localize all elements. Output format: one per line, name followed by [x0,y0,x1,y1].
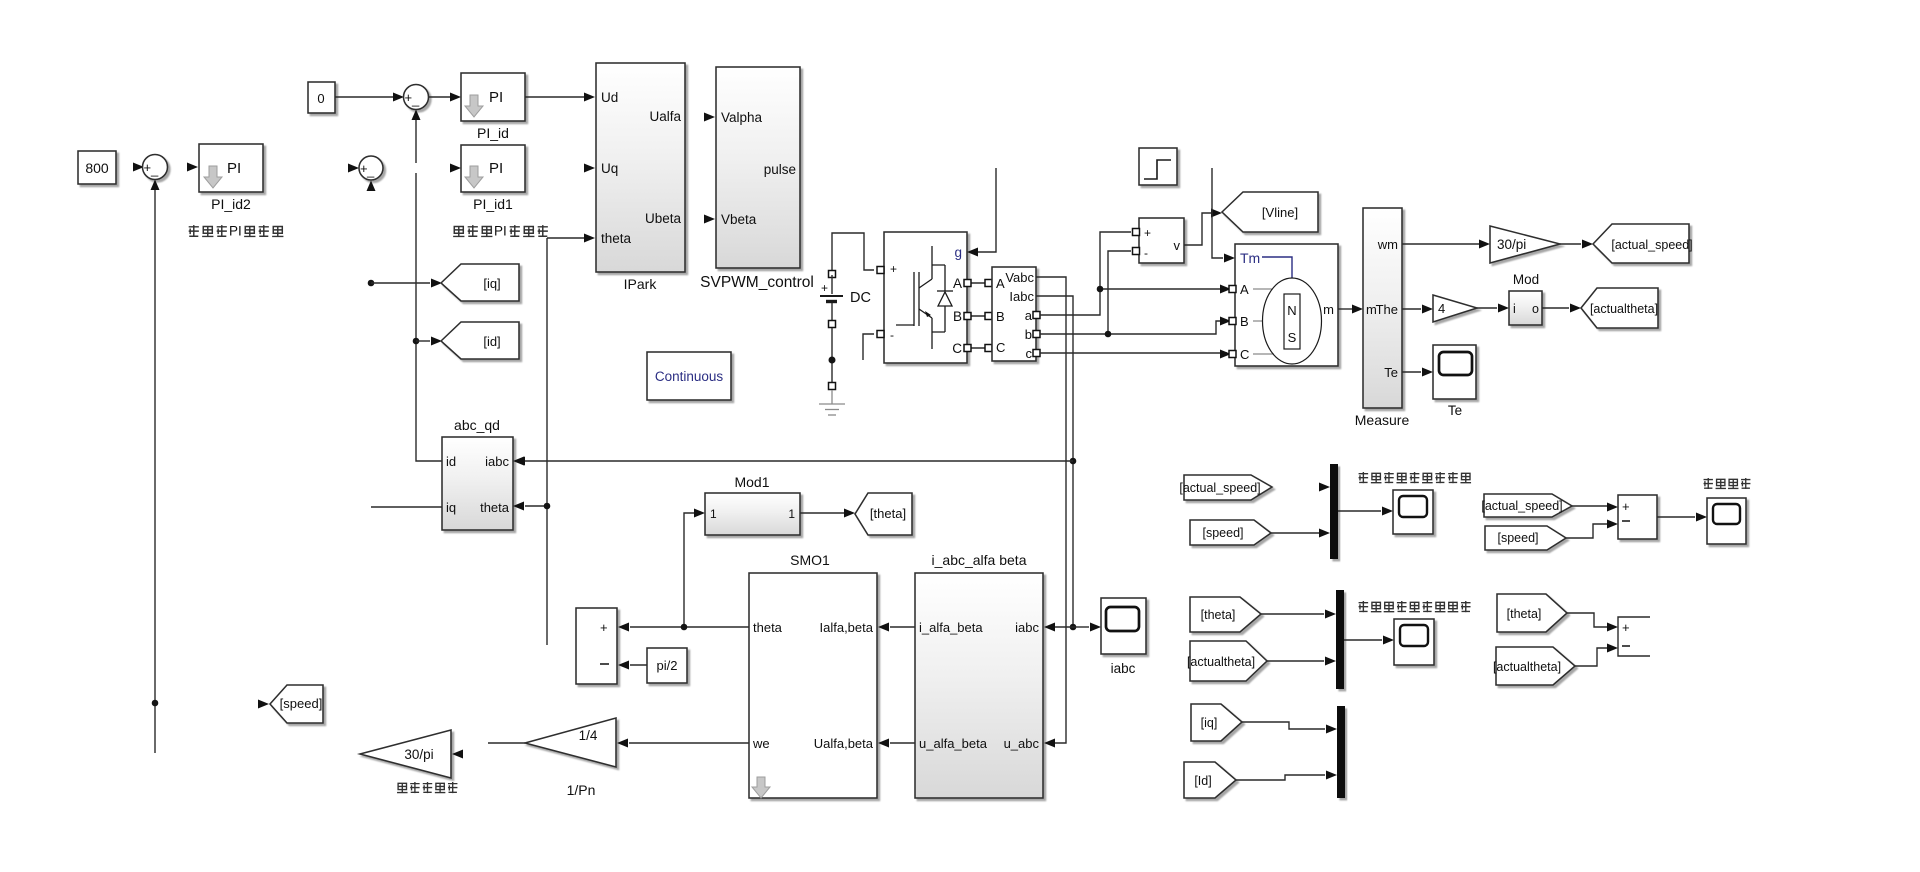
wire to [iq] tag [371,282,430,284]
wire Id to mux3 [1236,775,1325,780]
wire actualtheta to sumC [1575,648,1607,666]
svg-text:iabc: iabc [485,454,509,469]
svg-text:-: - [1144,246,1148,260]
port square DC top [829,271,836,278]
svg-text:Ialfa,beta: Ialfa,beta [820,620,874,635]
svg-text:iabc: iabc [1015,620,1039,635]
wire Vabc down to u_abc [1036,277,1066,743]
from tag [actualtheta] right [1493,647,1575,685]
gain 30/pi (rad to rpm, points left) [360,730,451,778]
wire arrow 800 to Sum3 [133,163,144,172]
block Mod1 [705,493,800,535]
wire Sum1 to PI_id [429,96,450,98]
svg-text:Iabc: Iabc [1009,289,1034,304]
node: id junction [413,338,420,345]
svg-text:u_alfa_beta: u_alfa_beta [919,736,988,751]
svg-text:4: 4 [1438,301,1445,316]
wire theta to mux2 [1261,613,1324,615]
svg-text:g: g [954,245,962,260]
wire 0 to Sum1 [335,96,394,98]
svg-text:Ualfa,beta: Ualfa,beta [814,736,874,751]
svg-text:PI_id2: PI_id2 [211,196,251,212]
svg-text:iq: iq [446,500,456,515]
wire pi/2 to sum [630,664,647,666]
svg-text:+: + [890,262,897,276]
svg-text:iabc: iabc [1111,661,1136,676]
node: iq junction [368,280,375,287]
wire speed to mux1 [1271,532,1319,534]
wire to [id] tag [416,340,430,342]
goto tag [id] [441,322,519,359]
sum block (theta compare) [576,608,617,684]
svg-text:1/4: 1/4 [579,728,598,743]
gain 30/pi (points right) [1490,226,1560,263]
goto tag [speed] [270,685,323,723]
svg-text:A: A [996,276,1005,291]
svg-text:Measure: Measure [1355,412,1410,428]
svg-text:id: id [446,454,456,469]
wire arrow iabc into abc_qd [513,457,524,466]
svg-text:+: + [1622,620,1630,635]
svg-text:wm: wm [1377,237,1398,252]
wire: SVPWM pulse to g [978,168,996,252]
svg-text:B: B [996,309,1005,324]
wire mux2 to scope [1344,639,1382,641]
wire Mod1 to [theta] [800,512,844,514]
node: DC minus junction [829,357,836,364]
svg-text:v: v [1174,238,1181,253]
wire arrow iabc into block [1044,623,1055,632]
wire SMO1 we out [629,742,749,744]
wire Iabc down [1036,296,1073,627]
scope Te [1433,345,1476,399]
svg-text:i_abc_alfa beta: i_abc_alfa beta [932,552,1027,568]
wire mux1 to scope [1338,510,1381,512]
from tag [speed] [1190,520,1271,545]
svg-text:N: N [1287,303,1296,318]
subsystem SVPWM_control [716,67,800,268]
from tag [iq] row3 [1191,704,1242,741]
svg-text:+: + [1144,226,1151,240]
svg-text:[actual_speed]: [actual_speed] [1611,238,1692,252]
svg-text:[speed]: [speed] [1497,531,1538,545]
sum speed error [1618,495,1657,539]
svg-text:Valpha: Valpha [721,110,763,125]
svg-text:30/pi: 30/pi [1497,237,1526,252]
wire Mod to [actualtheta] [1542,307,1569,309]
node theta junction [544,503,551,510]
block pi/2 [647,648,687,683]
svg-text:+: + [144,160,152,175]
wire iq out of abc_qd [371,506,442,508]
svg-text:PI_id: PI_id [477,125,509,141]
subsystem IPark [596,63,685,272]
wire theta into abc_qd [525,505,547,507]
svg-text:PI: PI [489,160,503,177]
wire SMO1 theta out [630,626,749,628]
svg-text:[actualtheta]: [actualtheta] [1590,302,1658,316]
wire v to [Vline] [1184,213,1211,245]
svg-text:Continuous: Continuous [655,369,724,384]
battery DC source [820,275,843,321]
svg-text:PI: PI [489,89,503,106]
svg-text:A: A [1240,282,1249,297]
wire arrow into 30/pi gain [452,750,463,759]
svg-text:PI: PI [494,224,507,239]
svg-text:A: A [953,276,962,291]
wire arrow Sum3 to PI_id2 [187,163,198,172]
annotation 弧度转转速 [397,782,457,793]
svg-text:The: The [1376,302,1398,317]
svg-text:[actual_speed]: [actual_speed] [1481,499,1562,513]
constant 0 [308,82,335,113]
wire actual_speed to sumB [1572,505,1607,507]
svg-text:o: o [1532,302,1539,316]
block Mod [1509,291,1542,325]
subsystem i_abc_alfa beta [915,573,1043,798]
node theta to Mod1 junction [681,624,688,631]
node Iabc to abc_qd [1070,458,1077,465]
svg-text:a: a [1025,308,1033,323]
svg-text:-: - [890,328,894,342]
svg-text:30/pi: 30/pi [404,747,433,762]
port square inverter + [877,267,884,274]
svg-text:we: we [752,736,770,751]
svg-text:[theta]: [theta] [1507,607,1542,621]
scope speed compare [1393,490,1433,534]
svg-text:PI: PI [229,224,242,239]
svg-text:theta: theta [601,231,632,246]
scope speed error [1707,498,1746,544]
port square DC bottom [829,383,836,390]
svg-text:S: S [1288,330,1297,345]
subsystem PI_id1 [461,145,525,192]
svg-text:[speed]: [speed] [280,696,323,711]
svg-text:[Id]: [Id] [1194,774,1211,788]
svg-text:[speed]: [speed] [1202,526,1243,540]
wires i_abc outputs to SMO1 [890,627,915,743]
svg-text:[iq]: [iq] [1201,716,1218,730]
motor port squares [1229,286,1236,293]
subsystem PI_id2 [199,144,263,192]
wire 30/pi to [actual_speed] [1560,243,1581,245]
svg-text:b: b [1025,327,1032,342]
sum Sum1 [404,85,429,110]
subsystem universal bridge (inverter) [884,232,967,363]
svg-text:pi/2: pi/2 [657,658,678,673]
svg-text:abc_qd: abc_qd [454,417,500,433]
ground [819,390,845,415]
gain 1/Pn (1/4, points left) [525,718,616,767]
wire to iabc scope [1073,626,1089,628]
wire PI_id to IPark Ud [525,96,584,98]
wire b phase [1040,251,1227,334]
wire motor m to Measure [1338,308,1352,310]
subsystem SMO1 [749,573,877,798]
svg-text:SMO1: SMO1 [790,552,830,568]
wire arrow into 1/4 gain [617,739,628,748]
svg-text:+: + [1622,499,1630,514]
constant 800 [78,151,116,184]
svg-text:[actualtheta]: [actualtheta] [1187,655,1255,669]
voltage measurement block [1139,218,1184,263]
svg-text:Te: Te [1448,403,1462,418]
annotation 电流环PI调节器 [453,224,548,239]
svg-text:Mod1: Mod1 [734,474,769,490]
scope iabc [1101,598,1146,654]
wire arrow SVPWM Valpha [704,113,715,122]
wire sumB to scope [1657,516,1695,518]
svg-text:Vabc: Vabc [1005,270,1034,285]
svg-text:Mod: Mod [1513,272,1539,287]
svg-text:1/Pn: 1/Pn [567,782,596,798]
mux2 [1336,590,1344,689]
wire wm to 30/pi [1402,243,1479,245]
svg-text:Ubeta: Ubeta [645,211,682,226]
svg-text:800: 800 [85,160,109,176]
wire arrow into PI_id1 [450,164,461,173]
node: junction on speed feedback [152,700,159,707]
gain 4 [1433,295,1477,322]
wire theta into IPark [547,237,584,239]
from tag [actual_speed] right [1481,494,1572,517]
from tag [Id] row3 [1184,762,1236,798]
svg-text:theta: theta [480,500,510,515]
wire step to motor Tm [1212,168,1223,258]
goto tag [actualtheta] [1581,288,1658,328]
step block [1139,148,1177,185]
svg-text:PI: PI [227,160,241,177]
svg-text:PI_id1: PI_id1 [473,196,513,212]
svg-text:C: C [1240,347,1249,362]
wire arrow IPark Uq [584,164,595,173]
wire: theta distribution vertical [546,238,548,645]
from tag [actual_speed] [1179,475,1272,500]
PMSM motor block [1235,244,1338,366]
svg-text:pulse: pulse [764,162,796,177]
svg-text:DC: DC [850,290,871,306]
powergui Continuous [647,352,731,400]
wire The to gain 4 [1402,308,1421,310]
goto tag [actual_speed] [1593,224,1693,263]
annotation 转速环PI调节器 [189,224,284,239]
wire iq to mux3 [1242,722,1325,729]
svg-text:B: B [953,309,962,324]
sum Sum2 [348,164,359,173]
svg-text:[id]: [id] [483,334,500,349]
svg-text:SVPWM_control: SVPWM_control [700,274,814,291]
wire a phase [1040,232,1227,315]
annotation 转速误差 [1704,478,1751,489]
sum Sum3 [143,155,168,180]
wire: Sum3 feedback vertical [151,180,160,191]
wire c phase [1040,352,1227,354]
wire theta to sumC [1567,613,1607,627]
subsystem Measure [1363,208,1402,408]
svg-text:Ualfa: Ualfa [649,109,681,124]
sum position error (partial) [1618,617,1650,656]
svg-text:theta: theta [753,620,783,635]
wire arrows into SMO1 [878,623,889,632]
annotation 估计转速和实际转速 [1359,472,1471,483]
svg-text:[theta]: [theta] [870,506,906,521]
wire: id feedback vertical into Sum1 [412,110,421,121]
svg-text:c: c [1026,346,1033,361]
subsystem abc_qd [442,437,513,530]
wire actualtheta to mux2 [1267,660,1324,662]
svg-text:_: _ [150,162,159,177]
svg-text:0: 0 [317,91,324,106]
subsystem PI_id [461,73,525,121]
svg-text:+: + [821,281,828,295]
svg-text:[actual_speed]: [actual_speed] [1179,481,1260,495]
svg-text:m: m [1323,302,1334,317]
goto tag [iq] [441,264,519,301]
svg-text:[actualtheta]: [actualtheta] [1493,660,1561,674]
IGBT + diode icon [896,246,953,349]
svg-text:B: B [1240,314,1249,329]
wire iabc feedback to abc_qd [525,460,1073,462]
svg-text:+: + [405,90,413,105]
svg-text:Ud: Ud [601,90,618,105]
svg-text:_: _ [411,92,420,107]
svg-text:i: i [1513,302,1516,316]
svg-text:1: 1 [710,507,717,521]
annotation 估计位置和实际位置 [1359,601,1471,612]
svg-text:_: _ [366,163,375,178]
svg-text:[Vline]: [Vline] [1262,205,1298,220]
from tag [theta] row2 [1190,597,1261,632]
svg-text:IPark: IPark [624,276,658,292]
wire Te to scope [1402,371,1421,373]
svg-text:Vbeta: Vbeta [721,212,757,227]
subsystem V/I measurement [992,267,1036,361]
svg-text:Tm: Tm [1240,250,1260,266]
wire inverter minus [863,334,874,360]
node Iabc to scope [1070,624,1077,631]
port square inverter - [877,331,884,338]
from tag [actualtheta] row2 [1187,641,1267,681]
svg-text:[iq]: [iq] [483,276,500,291]
wires inverter ABC to measurement [971,283,988,348]
svg-text:1: 1 [788,507,795,521]
wire arrow into mux1 [1319,483,1330,492]
scope position compare [1394,619,1434,665]
wire DC+ to inverter [832,233,874,270]
wire 4 to Mod [1477,307,1497,309]
from tag [theta] right [1497,594,1567,632]
svg-text:[theta]: [theta] [1201,608,1236,622]
goto tag [Vline] [1222,192,1318,232]
svg-text:C: C [952,341,962,356]
from tag [speed] right [1485,526,1566,550]
port squares abc outputs [1033,312,1040,319]
goto tag [theta] [855,493,912,535]
wire speed to sumB [1566,524,1607,538]
wire from 1/4 output [488,742,525,744]
svg-text:Te: Te [1384,365,1398,380]
svg-text:+: + [600,620,608,635]
mux1 [1330,464,1338,559]
wire theta line to Mod1 [684,513,694,627]
wire arrow SVPWM Vbeta [704,215,715,224]
wire arrow into [speed] [258,700,269,709]
svg-text:i_alfa_beta: i_alfa_beta [919,620,983,635]
svg-text:u_abc: u_abc [1004,736,1040,751]
mux3 [1337,706,1345,798]
port square DC mid [829,321,836,328]
svg-text:Uq: Uq [601,161,618,176]
svg-text:C: C [996,340,1005,355]
wire arrows into sum [618,623,629,632]
